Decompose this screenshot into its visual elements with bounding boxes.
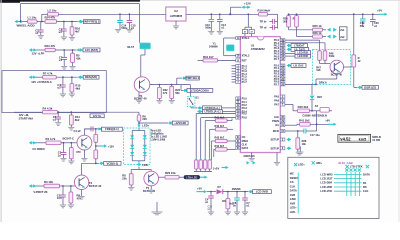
svg-text:V.PROT 2K: V.PROT 2K bbox=[33, 190, 47, 194]
IC pin P0.0 right bbox=[280, 39, 285, 42]
capacitor C20 bbox=[372, 14, 374, 19]
frame top faint right bbox=[140, 0, 400, 1]
IC U1 body bbox=[240, 37, 280, 153]
svg-text:RS: RS bbox=[363, 185, 367, 189]
resistor RN1 bbox=[215, 119, 227, 122]
IC pin P3.5 bbox=[236, 112, 241, 115]
svg-text:v4.52: v4.52 bbox=[340, 137, 351, 142]
IC pin P2.1 right bbox=[280, 67, 285, 70]
wire crystal cap feed bbox=[247, 14, 249, 27]
svg-text:L2 10u: L2 10u bbox=[48, 9, 57, 13]
LED D6 bbox=[143, 152, 147, 155]
transistor T3 bbox=[74, 175, 88, 189]
svg-text:AVR: AVR bbox=[290, 193, 295, 197]
svg-text:+5V: +5V bbox=[197, 186, 202, 190]
ground C2 bbox=[61, 37, 67, 40]
svg-text:S1: S1 bbox=[195, 95, 199, 99]
svg-text:P3.3: P3.3 bbox=[242, 106, 248, 110]
resistor pack R34 bbox=[208, 160, 211, 169]
jumper J1 bbox=[323, 29, 327, 31]
svg-text:2n: 2n bbox=[233, 204, 236, 208]
svg-text:+12V: +12V bbox=[244, 2, 251, 6]
wire T3 collector to VCB bbox=[81, 163, 83, 175]
svg-text:u1: u1 bbox=[53, 118, 57, 122]
svg-text:START-INA: START-INA bbox=[19, 116, 33, 120]
ground R20 bbox=[171, 99, 173, 100]
svg-text:U2: U2 bbox=[174, 9, 178, 13]
LED array rails bbox=[138, 128, 140, 131]
relay A5 box bbox=[320, 108, 329, 113]
connector X1 box bbox=[288, 157, 379, 218]
svg-text:km5: km5 bbox=[359, 138, 367, 142]
wire IC gnd pin bbox=[251, 153, 253, 159]
resistor R42b bbox=[344, 66, 352, 68]
wire R29 out bbox=[179, 176, 184, 178]
resistor R41 bbox=[300, 123, 311, 127]
IC pin P1.4 bbox=[236, 72, 241, 75]
ground R14 bbox=[68, 127, 74, 130]
svg-text:LTB/DL(A+L): LTB/DL(A+L) bbox=[205, 110, 221, 114]
wire P3 row a bbox=[196, 113, 235, 115]
resistor RN3 bbox=[215, 139, 227, 142]
svg-text:DATA: DATA bbox=[242, 146, 249, 150]
svg-text:R42 4k7: R42 4k7 bbox=[215, 124, 225, 128]
resistor R4a bbox=[43, 111, 58, 114]
frame right edge bbox=[398, 0, 400, 222]
wire P3 row b bbox=[201, 117, 236, 119]
IC pin P1.1 bbox=[236, 64, 241, 67]
net VPROT connector bbox=[29, 184, 32, 187]
resistor R19 56uH bbox=[259, 13, 268, 16]
svg-text:RESET: RESET bbox=[290, 176, 299, 180]
vertical bus 3 bbox=[204, 121, 206, 160]
net VCB 0-1 bbox=[99, 162, 102, 165]
wire TP vertical bbox=[277, 14, 279, 28]
LED D5 bbox=[143, 145, 147, 148]
wire MC3I row bbox=[285, 130, 298, 132]
svg-text:MC: MC bbox=[290, 172, 294, 176]
IC pin PA5 right bbox=[280, 95, 285, 98]
svg-text:P3.6: P3.6 bbox=[242, 116, 248, 120]
resistor R38 bbox=[297, 131, 299, 138]
capacitor C15 bbox=[128, 14, 130, 20]
svg-text:BC547-40: BC547-40 bbox=[89, 184, 102, 188]
svg-text:R23 47k: R23 47k bbox=[45, 44, 56, 48]
svg-text:LCD 5V/B: LCD 5V/B bbox=[256, 190, 268, 194]
ground C15 bbox=[126, 29, 132, 32]
net LTB DL bbox=[197, 110, 200, 113]
svg-text:R7 4.7k: R7 4.7k bbox=[43, 71, 53, 75]
capacitor C9 27p bbox=[251, 27, 253, 29]
arrow after dark label bbox=[200, 176, 205, 178]
wire R16 top and bottom bbox=[71, 22, 73, 27]
svg-text:12V +5V/BATLA: 12V +5V/BATLA bbox=[31, 80, 52, 84]
svg-text:43k: 43k bbox=[76, 56, 81, 60]
IC pin P2.2 right bbox=[280, 69, 285, 72]
IC U1 notch bbox=[257, 37, 264, 40]
wire row5 bbox=[36, 185, 44, 187]
wire R40 out bbox=[310, 110, 321, 112]
wire R7 out bbox=[56, 76, 77, 78]
wire divider node bbox=[95, 128, 97, 130]
wire T4 output down bbox=[311, 84, 313, 95]
wire T5 top bbox=[150, 170, 152, 172]
X1 xmark row bbox=[345, 168, 348, 171]
wire riser to +12V rail bbox=[230, 7, 232, 14]
svg-text:u1: u1 bbox=[57, 86, 61, 90]
svg-text:LED R05: LED R05 bbox=[298, 50, 309, 54]
resistor R28 bbox=[287, 16, 291, 28]
diode D22 bbox=[310, 96, 315, 100]
inductor L1 bbox=[28, 20, 38, 23]
regulator ML57 box bbox=[140, 43, 151, 49]
capacitor C4c bbox=[210, 192, 212, 196]
svg-text:L1 10u: L1 10u bbox=[28, 16, 37, 20]
display module outer bbox=[338, 134, 371, 142]
IC pin PA7 right bbox=[280, 103, 285, 106]
svg-text:R29 10k: R29 10k bbox=[165, 171, 176, 175]
svg-text:u1: u1 bbox=[59, 58, 63, 62]
wire caps to xtal pins bbox=[244, 34, 246, 37]
capacitor C3 bbox=[63, 143, 65, 153]
IC pin P0.1 right bbox=[280, 41, 285, 44]
ground C10 bbox=[208, 31, 214, 34]
IC pin P2.6 right bbox=[280, 80, 285, 83]
X1 header X-MR bbox=[312, 161, 315, 164]
svg-text:P1.7: P1.7 bbox=[242, 80, 248, 84]
net +12V arrow bbox=[242, 6, 245, 9]
wire IC pin 20 down bbox=[276, 153, 278, 163]
IC pin P2.5 right bbox=[280, 78, 285, 81]
driver dashed box bbox=[313, 50, 351, 85]
svg-text:500: 500 bbox=[283, 20, 288, 23]
resistor R24 bbox=[45, 20, 57, 24]
LED D2 bbox=[130, 145, 134, 148]
svg-text:TMP SEL1: TMP SEL1 bbox=[186, 76, 199, 80]
resistor R5 bbox=[71, 53, 75, 62]
resistor R23 bbox=[45, 48, 55, 51]
IC pin SETUP right bbox=[280, 138, 285, 141]
svg-text:BC557-40: BC557-40 bbox=[143, 189, 156, 193]
svg-text:10n: 10n bbox=[57, 196, 62, 200]
svg-text:2x2: 2x2 bbox=[340, 35, 345, 39]
svg-text:LB_DA2: LB_DA2 bbox=[294, 64, 304, 68]
ground T1 bbox=[136, 100, 142, 103]
svg-text:OC: OC bbox=[242, 135, 246, 139]
big ground bottom bbox=[156, 202, 158, 212]
wire pack bottom rail bbox=[194, 171, 212, 173]
ground C4 bbox=[60, 94, 66, 97]
resistor R10 bbox=[70, 84, 74, 92]
IC pin RST bbox=[236, 59, 241, 62]
svg-text:R19 56uH: R19 56uH bbox=[258, 9, 271, 13]
ground C7 bbox=[61, 66, 67, 69]
svg-text:n1: n1 bbox=[35, 31, 39, 35]
svg-text:XTAL1: XTAL1 bbox=[242, 36, 250, 40]
wire D22 to row1 bbox=[311, 100, 313, 111]
svg-text:220: 220 bbox=[142, 117, 147, 121]
wire top feed down to ML57 bbox=[139, 4, 141, 43]
wire row4 bbox=[36, 142, 46, 144]
resistor R30 bbox=[69, 148, 73, 159]
capacitor C1 bbox=[40, 22, 42, 31]
svg-text:22k: 22k bbox=[122, 176, 127, 180]
wire rail to R9 bbox=[211, 13, 258, 15]
svg-text:D7: D7 bbox=[218, 185, 222, 189]
svg-text:WHEEL A/OD: WHEEL A/OD bbox=[17, 24, 35, 28]
net +9V arrow bbox=[328, 123, 334, 125]
IC pin OC bbox=[236, 136, 241, 139]
svg-text:56u: 56u bbox=[360, 24, 365, 28]
net CC BREX connector bbox=[29, 141, 32, 144]
capacitor C2 bbox=[63, 22, 65, 30]
vertical bus 2 bbox=[200, 118, 202, 160]
ground U2 bbox=[175, 21, 177, 26]
svg-text:DISP.LED: DISP.LED bbox=[364, 85, 376, 89]
X1 vertical signal wires bbox=[346, 172, 348, 196]
wire R4 to T2 base bbox=[61, 142, 77, 144]
net dark label bbox=[184, 175, 200, 179]
net WHEEL input connector bbox=[15, 20, 18, 23]
resistor R40 bbox=[298, 109, 310, 113]
IC pin P3.1 bbox=[236, 100, 241, 103]
resistor R36 bbox=[94, 150, 98, 159]
net DISP LED bbox=[358, 86, 361, 89]
svg-text:CLK: CLK bbox=[290, 184, 296, 188]
svg-text:R: R bbox=[293, 18, 295, 21]
svg-text:R41 4k7: R41 4k7 bbox=[215, 115, 225, 119]
net +12V tap bbox=[96, 145, 101, 147]
svg-text:DRV.A: DRV.A bbox=[319, 80, 327, 84]
resistor R32 bbox=[158, 85, 160, 88]
frame top-left corner block bbox=[0, 0, 20, 3]
capacitor C4 bbox=[62, 77, 64, 85]
svg-text:INP FREQ 1: INP FREQ 1 bbox=[84, 20, 100, 24]
wire EA to R41 row bbox=[285, 124, 297, 126]
svg-text:R3 10k: R3 10k bbox=[44, 180, 53, 184]
net LED R05 box bbox=[285, 52, 295, 54]
svg-text:SETUP: SETUP bbox=[271, 146, 280, 150]
vertical bus 4 bbox=[209, 129, 211, 160]
net FREQ 0-1 bbox=[99, 127, 102, 130]
net START input wire bbox=[14, 111, 43, 113]
IC pin P3.6 bbox=[236, 116, 241, 119]
resistor R26 bbox=[313, 35, 323, 38]
wire T1 emitter bbox=[138, 92, 140, 100]
IC pin P0.6 right bbox=[280, 55, 285, 58]
wire L2 branch bbox=[41, 14, 43, 21]
wire R24 to out bbox=[57, 21, 78, 23]
svg-text:RST: RST bbox=[242, 58, 248, 62]
IC pin XTAL2 bbox=[236, 54, 241, 57]
capacitor C13 bbox=[219, 13, 221, 15]
svg-text:LM78M05: LM78M05 bbox=[170, 14, 183, 18]
net 12V LPF input connector bbox=[29, 48, 32, 51]
resistor R35 bbox=[94, 134, 98, 142]
IC pin P3.2 bbox=[236, 104, 241, 107]
ground C5 bbox=[60, 205, 66, 208]
resistor R25 bbox=[313, 28, 323, 31]
capacitor C4b on collector net bbox=[90, 126, 92, 131]
capacitor C7b bbox=[244, 192, 246, 198]
IC pin SETUP right bbox=[280, 147, 285, 150]
IC pin MISO bbox=[236, 140, 241, 143]
svg-text:R44 4k7: R44 4k7 bbox=[215, 144, 225, 148]
LED D1 bbox=[130, 135, 134, 138]
capacitor C8b bbox=[236, 192, 238, 198]
wire row-50 bbox=[36, 49, 45, 51]
wire row1 feedback top bbox=[20, 4, 22, 22]
IC pin P2.7 right bbox=[280, 83, 285, 86]
svg-text:CLK: CLK bbox=[242, 143, 247, 147]
LED array dashed box bbox=[124, 128, 151, 165]
svg-text:OT/DO(A+L): OT/DO(A+L) bbox=[204, 106, 219, 110]
IC pin P3.0 bbox=[236, 97, 241, 100]
ground R16 bbox=[69, 37, 75, 40]
net RES A/D bbox=[78, 76, 81, 79]
net +5V arrow bbox=[379, 13, 385, 15]
resistor R14 bbox=[69, 115, 73, 125]
wire R28 R22 tops bbox=[288, 14, 290, 15]
svg-text:CS: CS bbox=[290, 180, 294, 184]
transistor T4 bbox=[330, 60, 344, 74]
svg-text:LED+: LED+ bbox=[142, 124, 149, 128]
svg-text:24/96M: 24/96M bbox=[209, 45, 218, 49]
net LB arrow row bbox=[287, 64, 290, 67]
svg-text:LTB-STEK: LTB-STEK bbox=[350, 165, 363, 169]
IC pin XTAL1 bbox=[236, 37, 241, 40]
X1 pin column wire bbox=[297, 173, 299, 214]
svg-text:u1: u1 bbox=[59, 30, 63, 34]
X1 title LTB-STEK bbox=[346, 165, 349, 168]
wire U2 out bbox=[186, 13, 211, 15]
svg-text:P3.5: P3.5 bbox=[242, 112, 248, 116]
svg-text:+12V: +12V bbox=[108, 145, 114, 149]
wire +5V row bbox=[207, 191, 216, 193]
net SETUP2 arrow bbox=[286, 147, 289, 150]
wire link rows bbox=[316, 111, 318, 125]
svg-text:RES(A/D): RES(A/D) bbox=[85, 75, 97, 79]
svg-text:R25 1k: R25 1k bbox=[313, 24, 322, 28]
IC pin P2.0 right bbox=[280, 64, 285, 67]
transistor T5 bbox=[144, 171, 159, 186]
wire R9 ends bbox=[70, 186, 72, 192]
svg-text:PA7: PA7 bbox=[274, 103, 279, 107]
wire P2.7 to driver emitter bbox=[285, 83, 316, 85]
ground IC 2 bbox=[274, 162, 280, 165]
wire T5 emitter bbox=[150, 186, 152, 190]
IC pin P0.2 right bbox=[280, 44, 285, 47]
svg-text:56k: 56k bbox=[175, 91, 180, 95]
svg-text:J+5V: J+5V bbox=[213, 166, 220, 170]
ground D8 bbox=[227, 209, 229, 212]
transistor T2 bbox=[77, 135, 92, 150]
svg-text:R40 2k2: R40 2k2 bbox=[298, 105, 309, 109]
zener D8 bbox=[227, 192, 229, 199]
resistor R29 bbox=[165, 175, 179, 179]
svg-text:A5: A5 bbox=[315, 104, 319, 108]
svg-text:1n: 1n bbox=[58, 153, 62, 157]
svg-text:PA5: PA5 bbox=[274, 95, 279, 99]
capacitor C6 bbox=[57, 112, 59, 117]
svg-text:LED-: LED- bbox=[290, 210, 296, 214]
svg-text:500k: 500k bbox=[329, 54, 335, 58]
IC pin P0.3 right bbox=[280, 47, 285, 50]
wire ML57 to T1 bbox=[144, 49, 146, 55]
ground C3 bbox=[60, 158, 66, 161]
svg-text:+9V: +9V bbox=[325, 118, 330, 122]
svg-text:MC3I: MC3I bbox=[273, 129, 279, 133]
frame left edge bbox=[1, 0, 2, 222]
net 12V LED box bbox=[138, 122, 140, 124]
ground R32 bbox=[158, 99, 160, 100]
capacitor C5 bbox=[62, 186, 64, 195]
svg-text:LTG/DACO/DA: LTG/DACO/DA bbox=[191, 88, 209, 92]
wire xtal2 bbox=[224, 55, 236, 57]
ground T3 bbox=[79, 196, 85, 199]
svg-text:ALE: ALE bbox=[274, 115, 279, 119]
svg-text:470: 470 bbox=[76, 150, 81, 154]
svg-text:P0.7: P0.7 bbox=[274, 57, 280, 61]
jumper J2 bbox=[323, 36, 327, 38]
svg-text:CABIN -NBT/DABLN: CABIN -NBT/DABLN bbox=[302, 113, 327, 117]
X1 header LED+ bbox=[294, 163, 297, 166]
wire collector to S1 bbox=[189, 85, 191, 97]
wire P0.0 to driver bbox=[285, 39, 320, 41]
svg-text:U1: U1 bbox=[251, 43, 255, 47]
ground C13 bbox=[217, 31, 223, 34]
crystal Y1 bbox=[224, 37, 236, 39]
svg-text:47k: 47k bbox=[77, 196, 82, 200]
svg-text:AT89S8252: AT89S8252 bbox=[251, 47, 265, 51]
svg-text:LCD-VCK: LCD-VCK bbox=[320, 189, 332, 193]
svg-text:R4 4.3k: R4 4.3k bbox=[43, 106, 53, 110]
svg-text:+5V: +5V bbox=[377, 9, 382, 13]
net 12V BAT LA connector bbox=[29, 76, 32, 79]
svg-text:LCD-DB4: LCD-DB4 bbox=[320, 181, 332, 185]
wire D7 out bbox=[223, 191, 249, 193]
net OT/DO A+B bbox=[197, 106, 200, 109]
wire +5V rail right bbox=[289, 13, 380, 15]
svg-text:4k7: 4k7 bbox=[75, 29, 80, 33]
ground C8b bbox=[234, 212, 240, 215]
svg-text:LED-: LED- bbox=[142, 163, 148, 167]
svg-text:4N5/N8: 4N5/N8 bbox=[232, 187, 241, 191]
IC pin P2.4 right bbox=[280, 75, 285, 78]
net LED+ arrow bbox=[138, 121, 140, 125]
svg-text:VCB(0-1): VCB(0-1) bbox=[107, 161, 119, 165]
svg-text:PSEN: PSEN bbox=[272, 119, 279, 123]
ground T2 bbox=[81, 158, 87, 161]
resistor pack R32 bbox=[199, 160, 202, 169]
net row3 label bbox=[90, 114, 104, 118]
svg-text:8k2: 8k2 bbox=[75, 118, 80, 122]
svg-text:D22: D22 bbox=[317, 95, 322, 99]
svg-text:CLK: CLK bbox=[363, 189, 369, 193]
net +5V bottom bbox=[197, 191, 205, 193]
IC pin P1.2 bbox=[236, 67, 241, 70]
svg-text:LED R06: LED R06 bbox=[298, 54, 309, 58]
wire T5 collector to R29 bbox=[159, 176, 166, 178]
wire R9 out bbox=[268, 13, 278, 15]
wire R5 ends bbox=[72, 50, 74, 53]
resistor R49 bbox=[323, 51, 327, 61]
svg-text:R31 1k7: R31 1k7 bbox=[203, 55, 214, 59]
IC pin DATA bbox=[236, 147, 241, 150]
module boundary box bbox=[2, 71, 106, 113]
svg-text:SETUP: SETUP bbox=[271, 138, 280, 142]
IC pin P0.7 right bbox=[280, 58, 285, 61]
